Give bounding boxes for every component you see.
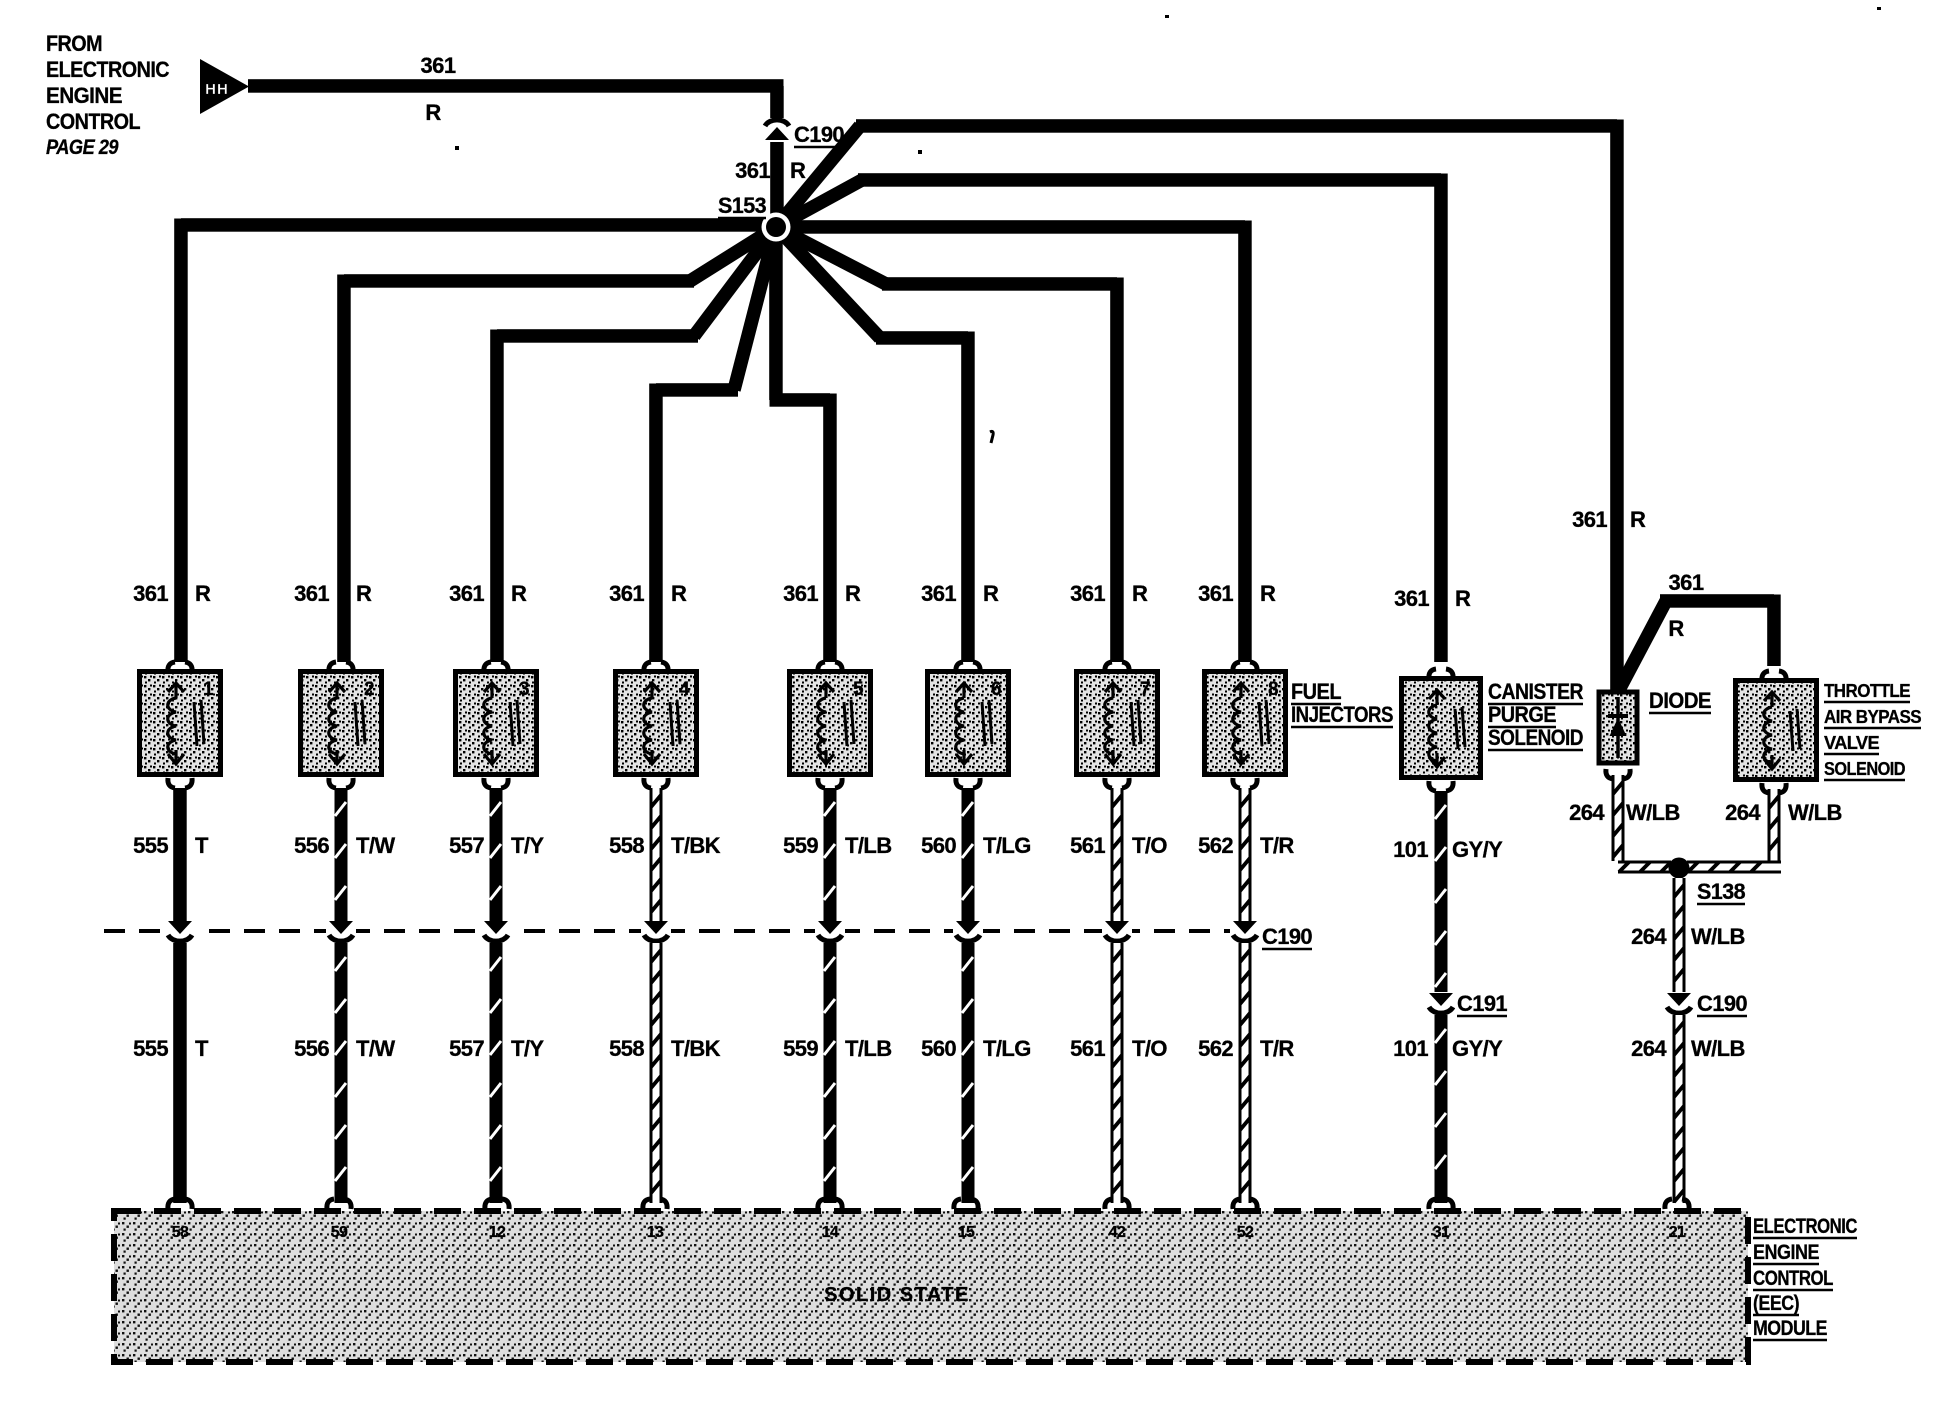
svg-text:7: 7	[1140, 679, 1150, 700]
wire 5510 below injector 6 (upper segment)	[962, 788, 975, 921]
wire 559 below injector 5 (upper segment)	[824, 788, 837, 921]
wire 101 GY/Y (lower)	[1435, 1015, 1448, 1203]
wire: S153 branch to injector 1	[181, 218, 776, 232]
connector at TAB solenoid top	[1762, 671, 1786, 681]
svg-text:31: 31	[1433, 1224, 1450, 1241]
svg-text:ELECTRONIC: ELECTRONIC	[1753, 1215, 1857, 1238]
svg-text:T: T	[195, 833, 209, 858]
svg-text:361: 361	[921, 581, 956, 606]
wire 264 W/LB from S138 (upper)	[1673, 878, 1686, 992]
svg-text:T/BK: T/BK	[671, 1036, 721, 1061]
fuel injector 5	[790, 672, 871, 775]
throttle air bypass valve solenoid	[1736, 681, 1817, 780]
EEC pin 13 connector	[643, 1199, 667, 1209]
svg-text:R: R	[1630, 507, 1646, 532]
wire: S153 branch to diode	[776, 126, 860, 227]
wire: S153 branch to injector 3	[694, 227, 776, 336]
svg-text:361: 361	[449, 581, 484, 606]
wire 5512 below injector 8 (upper segment)	[1239, 788, 1252, 921]
svg-text:15: 15	[958, 1224, 975, 1241]
svg-text:DIODE: DIODE	[1649, 688, 1711, 713]
svg-text:556: 556	[294, 1036, 329, 1061]
svg-text:361: 361	[1572, 507, 1607, 532]
svg-text:R: R	[1668, 616, 1684, 641]
wire: S153 branch to injector 4	[734, 227, 776, 390]
svg-text:CONTROL: CONTROL	[1753, 1267, 1834, 1290]
svg-text:561: 561	[1070, 833, 1105, 858]
svg-text:C191: C191	[1457, 991, 1507, 1016]
svg-text:T/LG: T/LG	[983, 1036, 1031, 1061]
svg-text:557: 557	[449, 1036, 484, 1061]
connector C190 in-line (injector 2 wire)	[326, 921, 356, 941]
connector at injector 5 top	[818, 662, 842, 672]
wire 5511 below injector 7 (lower segment)	[1111, 943, 1124, 1203]
connector at injector 6 bottom	[956, 778, 980, 788]
fuel injector 8	[1205, 672, 1286, 775]
connector at injector 7 top	[1105, 662, 1129, 672]
svg-text:THROTTLE: THROTTLE	[1824, 681, 1911, 701]
fuel injector 6	[928, 672, 1009, 775]
wire 264 W/LB below TAB solenoid	[1768, 789, 1781, 861]
svg-text:R: R	[671, 581, 687, 606]
wire 558 below injector 4 (upper segment)	[650, 788, 663, 921]
svg-text:4: 4	[679, 679, 690, 700]
svg-text:T/Y: T/Y	[511, 833, 544, 858]
svg-text:PAGE 29: PAGE 29	[46, 136, 119, 159]
svg-text:562: 562	[1198, 833, 1233, 858]
svg-text:361: 361	[783, 581, 818, 606]
wire: S153 branch to injector 8	[776, 220, 1245, 234]
svg-text:PURGE: PURGE	[1488, 702, 1556, 727]
svg-text:559: 559	[783, 833, 818, 858]
svg-text:T/LB: T/LB	[845, 1036, 891, 1061]
svg-text:R: R	[356, 581, 372, 606]
EEC pin 59 connector	[327, 1199, 351, 1209]
svg-text:361: 361	[1070, 581, 1105, 606]
wire 557 below injector 3 (lower segment)	[490, 943, 503, 1203]
svg-text:361: 361	[1394, 586, 1429, 611]
connector C190 (264 wire)	[1664, 993, 1694, 1013]
wire: 361 R from HH arrow, horizontal top	[248, 79, 784, 93]
svg-text:HH: HH	[205, 81, 229, 98]
wire 5512 below injector 8 (lower segment)	[1239, 943, 1252, 1203]
fuel injector 7	[1077, 672, 1158, 775]
svg-text:FUEL: FUEL	[1291, 679, 1341, 704]
svg-text:264: 264	[1569, 800, 1605, 825]
svg-text:8: 8	[1268, 679, 1278, 700]
connector at injector 1 bottom	[168, 778, 192, 788]
diode D (box with diode symbol)	[1599, 692, 1637, 763]
svg-text:T/LG: T/LG	[983, 833, 1031, 858]
svg-text:AIR BYPASS: AIR BYPASS	[1824, 707, 1922, 727]
wire 5511 below injector 7 (upper segment)	[1111, 788, 1124, 921]
svg-text:361: 361	[294, 581, 329, 606]
svg-text:264: 264	[1631, 924, 1667, 949]
svg-text:SOLID STATE: SOLID STATE	[824, 1284, 970, 1306]
svg-text:ENGINE: ENGINE	[1753, 1241, 1820, 1264]
EEC pin 14 connector	[818, 1199, 842, 1209]
wire 101 GY/Y below canister solenoid (upper)	[1435, 791, 1448, 992]
EEC pin 42 connector	[1105, 1199, 1129, 1209]
connector at TAB solenoid bottom	[1762, 783, 1786, 793]
svg-text:T/O: T/O	[1132, 1036, 1167, 1061]
svg-text:562: 562	[1198, 1036, 1233, 1061]
svg-text:361: 361	[133, 581, 168, 606]
svg-text:13: 13	[647, 1224, 664, 1241]
canister purge solenoid	[1402, 679, 1481, 778]
wire: S153 branch to injector 2	[690, 227, 776, 281]
svg-text:557: 557	[449, 833, 484, 858]
svg-text:2: 2	[364, 679, 374, 700]
svg-text:12: 12	[489, 1224, 506, 1241]
svg-text:W/LB: W/LB	[1691, 1036, 1745, 1061]
svg-text:MODULE: MODULE	[1753, 1317, 1827, 1340]
wire 558 below injector 4 (lower segment)	[650, 943, 663, 1203]
svg-text:361: 361	[735, 158, 770, 183]
svg-text:GY/Y: GY/Y	[1452, 837, 1503, 862]
EEC module box (solid state)	[114, 1211, 1748, 1362]
connector C190 in-line (injector 4 wire)	[641, 921, 671, 941]
svg-text:R: R	[845, 581, 861, 606]
connector at injector 4 top	[644, 662, 668, 672]
svg-text:561: 561	[1070, 1036, 1105, 1061]
svg-text:W/LB: W/LB	[1626, 800, 1680, 825]
svg-text:R: R	[511, 581, 527, 606]
svg-text:560: 560	[921, 1036, 956, 1061]
connector at injector 8 top	[1233, 662, 1257, 672]
wire 555 below injector 1 (lower segment)	[173, 943, 187, 1203]
svg-text:361: 361	[1198, 581, 1233, 606]
wire 557 below injector 3 (upper segment)	[490, 788, 503, 921]
connector at injector 7 bottom	[1105, 778, 1129, 788]
svg-text:VALVE: VALVE	[1824, 733, 1880, 753]
wire 5510 below injector 6 (lower segment)	[962, 943, 975, 1203]
noise marks	[990, 431, 993, 443]
connector at injector 4 bottom	[644, 778, 668, 788]
svg-text:ELECTRONIC: ELECTRONIC	[46, 57, 170, 82]
EEC pin 31 connector	[1429, 1199, 1453, 1209]
svg-text:R: R	[1260, 581, 1276, 606]
EEC pin 15 connector	[954, 1199, 978, 1209]
connector C190 in-line (injector 5 wire)	[815, 921, 845, 941]
svg-text:C190: C190	[1262, 924, 1312, 949]
svg-text:R: R	[790, 158, 806, 183]
svg-text:FROM: FROM	[46, 31, 102, 56]
svg-text:101: 101	[1393, 837, 1428, 862]
wire: S153 branch to injector 6	[776, 227, 880, 338]
svg-text:W/LB: W/LB	[1788, 800, 1842, 825]
connector C190 in-line (injector 6 wire)	[953, 921, 983, 941]
svg-text:5: 5	[853, 679, 864, 700]
svg-text:361: 361	[1669, 570, 1704, 595]
svg-text:R: R	[983, 581, 999, 606]
svg-text:R: R	[425, 100, 441, 125]
svg-text:559: 559	[783, 1036, 818, 1061]
wire 264 W/LB from S138 (lower)	[1673, 1015, 1686, 1203]
svg-text:42: 42	[1109, 1224, 1126, 1241]
wire: S153 branch to injector 7	[776, 227, 886, 284]
EEC pin 52 connector	[1233, 1199, 1257, 1209]
connector at injector 2 bottom	[329, 778, 353, 788]
connector C190 in-line (injector 3 wire)	[481, 921, 511, 941]
connector C190 in-line (injector 8 wire)	[1230, 921, 1260, 941]
wire 559 below injector 5 (lower segment)	[824, 943, 837, 1203]
svg-text:C190: C190	[794, 122, 844, 147]
svg-text:SOLENOID: SOLENOID	[1488, 725, 1583, 750]
connector at canister solenoid top	[1429, 669, 1453, 679]
svg-text:T/R: T/R	[1260, 1036, 1294, 1061]
wire: 361 R branch diode-top to throttle air bypass valve solenoid	[1620, 601, 1666, 688]
wire 555 below injector 1 (upper segment)	[173, 788, 187, 921]
connector at injector 3 top	[484, 662, 508, 672]
svg-text:INJECTORS: INJECTORS	[1291, 702, 1393, 727]
svg-text:361: 361	[421, 53, 456, 78]
svg-text:ENGINE: ENGINE	[46, 83, 122, 108]
svg-text:556: 556	[294, 833, 329, 858]
wire: 361 R vertical drop into S153	[770, 86, 784, 118]
svg-text:T/W: T/W	[356, 833, 395, 858]
svg-text:558: 558	[609, 1036, 644, 1061]
connector at diode bottom	[1606, 769, 1630, 779]
wire 556 below injector 2 (upper segment)	[335, 788, 348, 921]
svg-text:58: 58	[172, 1224, 189, 1241]
splice S153	[762, 213, 791, 242]
fuel injector 2	[301, 672, 382, 775]
connector at canister solenoid bottom	[1429, 781, 1453, 791]
EEC pin 21 connector	[1665, 1199, 1689, 1209]
connector C190 (top, on 361 R vertical)	[762, 121, 792, 140]
svg-text:R: R	[1455, 586, 1471, 611]
dashed line: connector C190 row	[104, 929, 1258, 933]
wire: S153 branch to injector 5	[769, 227, 783, 400]
svg-text:52: 52	[1237, 1224, 1254, 1241]
wire: S153 branch to canister purge solenoid	[776, 180, 862, 227]
svg-text:3: 3	[519, 679, 529, 700]
svg-text:T/Y: T/Y	[511, 1036, 544, 1061]
svg-text:264: 264	[1725, 800, 1761, 825]
svg-text:CANISTER: CANISTER	[1488, 679, 1584, 704]
svg-text:(EEC): (EEC)	[1753, 1292, 1799, 1315]
svg-text:6: 6	[991, 679, 1001, 700]
svg-text:T/R: T/R	[1260, 833, 1294, 858]
source arrow HH (from electronic engine control)	[200, 59, 249, 114]
svg-text:SOLENOID: SOLENOID	[1824, 759, 1906, 779]
svg-text:21: 21	[1669, 1224, 1686, 1241]
fuel injector 4	[616, 672, 697, 775]
svg-text:S138: S138	[1697, 879, 1745, 904]
fuel injector 3	[456, 672, 537, 775]
svg-text:S153: S153	[718, 193, 766, 218]
connector at injector 3 bottom	[484, 778, 508, 788]
connector at injector 8 bottom	[1233, 778, 1257, 788]
svg-text:361: 361	[609, 581, 644, 606]
svg-text:T/O: T/O	[1132, 833, 1167, 858]
svg-text:R: R	[1132, 581, 1148, 606]
connector at injector 5 bottom	[818, 778, 842, 788]
svg-text:560: 560	[921, 833, 956, 858]
svg-text:101: 101	[1393, 1036, 1428, 1061]
EEC pin 58 connector	[168, 1199, 192, 1209]
connector at injector 6 top	[956, 662, 980, 672]
svg-text:14: 14	[822, 1224, 839, 1241]
svg-text:C190: C190	[1697, 991, 1747, 1016]
svg-text:264: 264	[1631, 1036, 1667, 1061]
svg-text:T/LB: T/LB	[845, 833, 891, 858]
connector at injector 1 top	[168, 662, 192, 672]
svg-text:GY/Y: GY/Y	[1452, 1036, 1503, 1061]
wire 556 below injector 2 (lower segment)	[335, 943, 348, 1203]
connector C190 in-line (injector 7 wire)	[1102, 921, 1132, 941]
connector C190 in-line (injector 1 wire)	[165, 921, 195, 941]
connector at injector 2 top	[329, 662, 353, 672]
svg-text:T: T	[195, 1036, 209, 1061]
EEC pin 12 connector	[485, 1199, 509, 1209]
svg-text:T/W: T/W	[356, 1036, 395, 1061]
svg-text:555: 555	[133, 1036, 168, 1061]
svg-text:59: 59	[331, 1224, 348, 1241]
connector C191	[1426, 993, 1456, 1013]
svg-text:CONTROL: CONTROL	[46, 109, 140, 134]
wire 264 W/LB below diode	[1612, 775, 1625, 861]
splice S138	[1669, 858, 1690, 879]
svg-text:W/LB: W/LB	[1691, 924, 1745, 949]
svg-text:T/BK: T/BK	[671, 833, 721, 858]
svg-text:1: 1	[203, 679, 214, 700]
svg-text:R: R	[195, 581, 211, 606]
fuel injector 1	[140, 672, 221, 775]
svg-text:558: 558	[609, 833, 644, 858]
svg-text:555: 555	[133, 833, 168, 858]
